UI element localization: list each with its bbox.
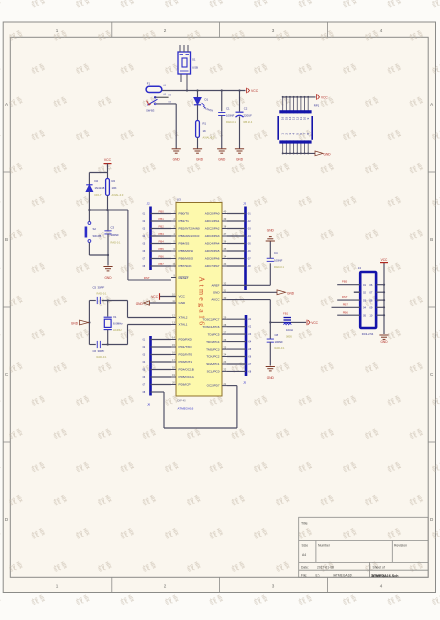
ground (crystal) [71,320,89,325]
svg-text:File:: File: [301,573,307,577]
wire switch to ground [175,104,177,149]
svg-text:0805: 0805 [286,334,292,338]
svg-text:\ATMEGA16\: \ATMEGA16\ [333,573,352,577]
svg-text:ATMEGA16: ATMEGA16 [178,407,194,411]
wires PD0-PD6 to J6 [143,340,171,395]
svg-text:RAD-0.1: RAD-0.1 [97,291,108,295]
svg-text:GND: GND [179,301,187,305]
svg-text:TDI/PC5: TDI/PC5 [208,332,220,336]
svg-text:PB0: PB0 [159,210,165,214]
svg-text:GND: GND [196,158,204,162]
svg-text:GND: GND [218,158,226,162]
svg-text:Date:: Date: [301,566,309,570]
svg-text:4: 4 [380,583,383,588]
svg-text:A4: A4 [302,553,306,557]
svg-text:GND: GND [173,158,181,162]
svg-text:RESET: RESET [179,276,189,280]
svg-text:GND: GND [287,292,295,296]
svg-text:1: 1 [56,583,59,588]
wire RP1 bottom rail [282,152,315,154]
svg-text:U3: U3 [177,198,181,202]
svg-text:PB1: PB1 [159,217,165,221]
svg-text:Size: Size [302,543,309,547]
svg-text:ATMEGA16.Sch: ATMEGA16.Sch [372,574,399,578]
svg-text:VCC: VCC [321,96,328,100]
svg-text:GND: GND [213,290,221,294]
svg-text:J2: J2 [147,202,151,206]
svg-text:FB1: FB1 [283,312,289,316]
wire AVCC net [227,300,284,324]
connector J3 bus [243,202,247,291]
svg-text:VCC: VCC [311,321,318,325]
svg-text:10K: 10K [112,186,117,190]
svg-text:E:\: E:\ [316,573,320,577]
svg-text:USB: USB [192,66,198,70]
svg-text:J3: J3 [243,202,247,206]
svg-text:PB5: PB5 [159,247,165,251]
svg-text:ADC1/PA1: ADC1/PA1 [205,219,220,223]
svg-text:02: 02 [363,290,366,294]
svg-text:DIP-40: DIP-40 [178,399,187,403]
svg-text:SW-PB: SW-PB [93,234,102,238]
svg-text:DC3-2.54: DC3-2.54 [362,332,374,336]
svg-text:06: 06 [369,283,372,287]
svg-text:PB1/T1: PB1/T1 [179,219,190,223]
svg-text:TOSC2/PC7: TOSC2/PC7 [202,317,219,321]
svg-text:C1: C1 [226,106,230,110]
wire XTAL2 net [89,301,171,318]
svg-text:ADC0/PA0: ADC0/PA0 [205,212,220,216]
ground (C2) [235,149,244,162]
capacitor C6 [93,341,108,359]
svg-text:RAD-0.1: RAD-0.1 [274,265,285,269]
svg-text:ADC3/PA3: ADC3/PA3 [205,234,220,238]
svg-text:PD5/OC1A: PD5/OC1A [179,375,195,379]
svg-text:RST: RST [342,295,348,299]
svg-text:PB6: PB6 [343,310,349,314]
diode D2 [86,173,105,211]
svg-text:GND: GND [136,302,144,306]
svg-text:PB5: PB5 [342,280,348,284]
svg-text:F1: F1 [147,82,151,86]
svg-text:TDO/PC4: TDO/PC4 [206,340,220,344]
resistor network RP1 [278,97,319,153]
svg-text:RP1: RP1 [314,104,320,108]
svg-text:AXIAL-0.3: AXIAL-0.3 [112,193,124,197]
svg-text:GND: GND [324,153,332,157]
svg-text:03: 03 [363,298,366,302]
svg-text:DIO-7: DIO-7 [95,193,102,197]
svg-text:AXIAL-0.3: AXIAL-0.3 [203,136,215,140]
svg-text:PD6/ICP: PD6/ICP [179,383,191,387]
pin numbers U3 left [171,211,176,385]
switch S2 reset button [85,210,102,255]
svg-text:PD1/TXD: PD1/TXD [179,345,193,349]
svg-text:100NF: 100NF [111,233,120,237]
svg-text:X1: X1 [113,315,117,319]
power VCC (rail) [247,88,259,94]
wire crystal gnd bus [88,301,90,345]
svg-text:J6: J6 [147,403,151,407]
svg-text:1K: 1K [203,129,207,133]
ground (U3 pin 11) [136,301,176,306]
wires J4 right rail [376,263,385,335]
svg-text:100NF: 100NF [226,114,235,118]
svg-text:3: 3 [272,583,275,588]
connector J2 bus [147,202,151,271]
capacitor C8 [267,322,285,365]
capacitor C4 [267,241,285,269]
switch S3 (power) [146,95,176,113]
capacitor C2 polarized [236,91,253,149]
svg-text:ADC5/PA5: ADC5/PA5 [205,249,220,253]
wires PA0-PA7 to J3 [227,214,251,269]
svg-text:PD4/OC1B: PD4/OC1B [179,368,194,372]
svg-text:C4: C4 [274,251,278,255]
svg-text:PD2/INT0: PD2/INT0 [179,353,193,357]
ground (switch) [172,149,181,162]
svg-text:D1: D1 [205,98,209,102]
connector J4 ISP header [358,266,376,336]
svg-text:HC49U: HC49U [113,328,122,332]
svg-text:B: B [5,237,8,242]
svg-text:PB2: PB2 [159,225,165,229]
pin names U3 right column [202,212,220,388]
svg-text:PB7: PB7 [159,262,165,266]
svg-text:100NF: 100NF [275,340,284,344]
connector S1 USB [178,45,198,91]
capacitor C1 [218,91,236,149]
svg-text:RAD-0.1: RAD-0.1 [111,241,122,245]
svg-text:2017-01-08: 2017-01-08 [317,566,334,570]
power VCC (reset) [104,158,112,172]
svg-text:SW-B3: SW-B3 [146,108,155,112]
power VCC (RP1) [317,94,329,100]
svg-text:RAD-0.1: RAD-0.1 [275,346,286,350]
svg-text:RAD-0.1: RAD-0.1 [226,120,237,124]
svg-text:J4: J4 [358,266,362,270]
wire top (reset) [89,172,107,174]
svg-text:2: 2 [164,28,167,33]
svg-text:10: 10 [369,313,372,317]
ground (AREF) [266,229,275,242]
svg-text:Sheet of: Sheet of [373,566,385,570]
svg-text:4: 4 [380,28,383,33]
svg-text:AVCC: AVCC [211,298,220,302]
ground (C8) [266,367,275,381]
ferrite bead FB1 [283,312,306,339]
svg-text:VCC: VCC [104,158,112,162]
pin names U3 left column [179,212,200,387]
LED D1 [194,91,214,121]
svg-text:PB7/SCK: PB7/SCK [179,264,193,268]
resistor R1 [196,121,215,149]
svg-text:30PF: 30PF [98,349,105,353]
svg-text:PD0/RXD: PD0/RXD [179,338,193,342]
svg-text:XTAL2: XTAL2 [179,316,188,320]
ground (R1) [193,149,204,162]
capacitor C5 [93,285,108,304]
svg-text:D2: D2 [95,179,99,183]
svg-text:3: 3 [272,28,275,33]
svg-text:RAD-0.1: RAD-0.1 [97,355,108,359]
svg-text:2: 2 [164,583,167,588]
svg-text:100NF: 100NF [274,259,283,263]
svg-text:10UH: 10UH [286,328,293,332]
svg-text:R2: R2 [112,179,116,183]
svg-text:RB.2/.4: RB.2/.4 [244,120,253,124]
ic U3 ATmega16 [176,198,222,411]
connector J5 bus [243,315,247,385]
svg-text:PB4: PB4 [159,240,165,244]
capacitor C3 [104,210,121,255]
svg-text:SDA/PC1: SDA/PC1 [206,362,220,366]
ground (C1) [217,149,226,162]
svg-text:PB7: PB7 [343,303,349,307]
resistor R2 [106,173,124,211]
svg-text:PB4/SS: PB4/SS [179,242,190,246]
svg-text:GND: GND [267,229,275,233]
svg-text:30PF: 30PF [98,285,105,289]
svg-text:1N4148: 1N4148 [95,186,105,190]
svg-text:08: 08 [369,298,372,302]
wire AREF net [227,263,270,285]
ground (reset) [103,267,112,281]
wire XTAL1 net [89,325,171,345]
svg-text:C2: C2 [244,106,248,110]
net labels PB0-PB7 [159,210,165,267]
node rail junctions [186,89,188,91]
wire RP1 top rail [282,96,316,98]
svg-text:GND: GND [236,158,244,162]
svg-text:C8: C8 [275,333,279,337]
svg-text:GND: GND [380,340,388,344]
svg-text:ADC4/PA4: ADC4/PA4 [205,242,220,246]
svg-text:OC2/PD7: OC2/PD7 [207,384,220,388]
power VCC (J4) [380,258,388,263]
svg-text:Title: Title [301,522,308,526]
svg-text:VCC: VCC [179,295,186,299]
svg-text:PB2/INT2/AIN0: PB2/INT2/AIN0 [179,227,200,231]
svg-text:R1: R1 [203,122,207,126]
ground (J4) [379,335,388,344]
wire reset bottom [89,254,109,266]
svg-text:PD3/INT1: PD3/INT1 [179,360,193,364]
svg-text:XTAL1: XTAL1 [179,323,188,327]
connector J6 bus [147,336,151,407]
svg-text:TMS/PC3: TMS/PC3 [206,347,220,351]
svg-text:8.0MHz: 8.0MHz [113,322,123,326]
svg-text:VCC: VCC [251,89,259,93]
power VCC (FB1) [307,320,319,326]
wire PD7 loop [151,386,237,428]
svg-text:PB6/MISO: PB6/MISO [179,257,194,261]
svg-text:C3: C3 [111,226,115,230]
svg-text:Number: Number [318,543,331,547]
svg-text:S2: S2 [93,227,97,231]
svg-text:PB5/MOSI: PB5/MOSI [179,249,194,253]
svg-text:09: 09 [369,306,372,310]
svg-text:VCC: VCC [151,295,158,299]
svg-text:01: 01 [363,283,366,287]
svg-text:PB3/AIN1/OC0: PB3/AIN1/OC0 [179,234,200,238]
svg-text:C5: C5 [93,285,97,289]
ground (U3 pin 31) [227,290,295,296]
svg-text:SCL/PC0: SCL/PC0 [207,370,220,374]
pin numbers U3 right [222,211,227,386]
svg-text:220UF: 220UF [244,114,253,118]
svg-text:1: 1 [56,28,59,33]
crystal X1 [104,299,124,345]
svg-text:PB0/T0: PB0/T0 [179,212,190,216]
svg-text:ADC6/PA6: ADC6/PA6 [205,257,220,261]
svg-text:05: 05 [363,313,366,317]
svg-text:GND: GND [71,321,79,325]
power VCC (U3 pin 10) [151,293,176,300]
svg-text:04: 04 [363,306,366,310]
wires PC7-PC0 to J5 [227,319,252,373]
svg-text:PB6: PB6 [159,255,165,259]
svg-text:S1: S1 [192,58,196,62]
svg-text:ADC7/PA7: ADC7/PA7 [205,264,220,268]
wire VCC rail [162,90,246,92]
ground (RP1) [315,151,331,157]
svg-text:ADC2/PA2: ADC2/PA2 [205,227,220,231]
svg-text:Revision: Revision [394,543,407,547]
svg-text:TCK/PC2: TCK/PC2 [206,355,219,359]
svg-text:PB3: PB3 [159,232,165,236]
wires PB0-PB7 to J2 [143,214,171,269]
fuse F1 [146,82,167,97]
svg-text:TOSC1/PC6: TOSC1/PC6 [202,325,219,329]
svg-text:07: 07 [369,290,372,294]
wires J4 left nets [332,285,361,316]
wire RST node [88,209,171,280]
svg-text:AREF: AREF [211,284,219,288]
svg-text:VCC: VCC [381,258,388,262]
svg-text:B: B [430,237,433,242]
svg-text:GND: GND [104,276,112,280]
svg-text:J5: J5 [243,381,247,385]
svg-text:C6: C6 [93,349,97,353]
svg-text:RST: RST [144,276,150,280]
svg-text:GND: GND [267,376,275,380]
